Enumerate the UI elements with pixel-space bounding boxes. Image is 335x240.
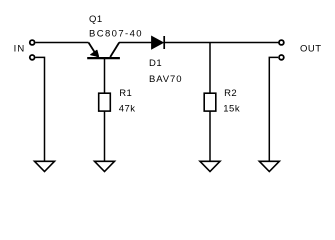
transistor Q1 emitter wire xyxy=(89,43,98,58)
transistor Q1 base lead xyxy=(104,58,106,93)
resistor R1 body xyxy=(99,93,111,111)
ground (bottom-right) xyxy=(259,161,279,171)
svg-text:Q1: Q1 xyxy=(89,14,103,25)
ground (below R2) xyxy=(200,161,220,171)
wire IN to Q1 emitter xyxy=(36,42,89,44)
svg-text:IN: IN xyxy=(14,43,26,54)
wire Q1 collector to D1 anode xyxy=(119,42,152,44)
svg-text:BC807-40: BC807-40 xyxy=(89,29,143,40)
svg-text:BAV70: BAV70 xyxy=(149,74,182,85)
transistor Q1 collector wire xyxy=(110,43,119,58)
svg-text:47k: 47k xyxy=(119,103,136,114)
ground (bottom-left) xyxy=(35,161,55,171)
wire R1 to ground xyxy=(104,111,106,162)
wire D1 cathode to OUT xyxy=(164,42,279,44)
wire junction to R2 xyxy=(209,43,211,94)
transistor Q1 base bar xyxy=(87,57,120,59)
diode D1 cathode bar xyxy=(163,36,165,49)
wire bottom-left terminal to ground xyxy=(36,57,45,161)
node OUT (top terminal) xyxy=(279,40,284,45)
node IN (top terminal) xyxy=(30,40,35,45)
node IN return (bottom-left terminal) xyxy=(30,55,35,60)
svg-text:R2: R2 xyxy=(224,88,237,99)
diode D1 xyxy=(152,36,164,49)
node OUT return (bottom-right terminal) xyxy=(279,55,284,60)
svg-text:15k: 15k xyxy=(223,103,240,114)
transistor Q1 emitter arrow (PNP) xyxy=(91,50,99,56)
wire bottom-right terminal to ground xyxy=(269,57,278,161)
resistor R2 body xyxy=(204,93,216,111)
wire R2 to ground xyxy=(209,111,211,162)
svg-text:OUT: OUT xyxy=(300,44,322,55)
svg-text:R1: R1 xyxy=(119,88,132,99)
ground (below R1) xyxy=(95,161,115,171)
svg-text:D1: D1 xyxy=(149,58,162,69)
